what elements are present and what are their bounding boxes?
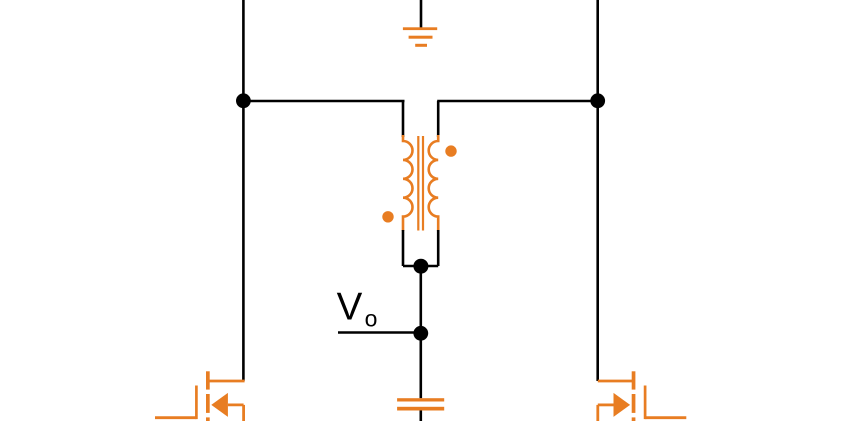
label Vo xyxy=(337,286,378,332)
capacitor C1 xyxy=(397,398,444,410)
transformer T1 right winding xyxy=(429,135,439,231)
node junction center-tap xyxy=(413,259,428,274)
wire xyxy=(243,100,404,103)
transformer T1 left winding xyxy=(403,135,413,231)
wire xyxy=(420,0,423,29)
transformer T1 phasing dot left xyxy=(382,211,393,222)
node Vo xyxy=(413,326,428,341)
wire xyxy=(402,230,405,266)
wire xyxy=(242,0,245,381)
wire xyxy=(437,101,440,137)
node junction right xyxy=(590,93,605,108)
transformer T1 phasing dot right xyxy=(445,145,456,156)
node junction left xyxy=(236,93,251,108)
svg-text:o: o xyxy=(365,306,378,332)
wire xyxy=(596,0,599,381)
transformer T1 core xyxy=(418,136,423,231)
wire xyxy=(403,265,438,268)
ground xyxy=(403,27,437,47)
wire xyxy=(437,100,598,103)
wire xyxy=(338,331,421,334)
wire xyxy=(419,411,422,421)
svg-text:V: V xyxy=(337,286,363,329)
transistor Q2 xyxy=(598,371,687,421)
transistor Q1 xyxy=(155,371,245,421)
wire xyxy=(437,230,440,266)
wire xyxy=(419,266,422,398)
wire xyxy=(402,101,405,137)
